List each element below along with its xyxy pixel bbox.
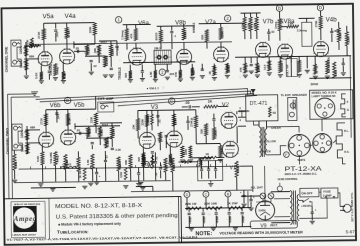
svg-text:100K: 100K	[19, 60, 23, 69]
svg-text:220K: 220K	[88, 127, 92, 134]
svg-text:R.S.: R.S.	[344, 150, 349, 154]
svg-text:560Ω: 560Ω	[236, 166, 240, 174]
svg-text:.02: .02	[104, 155, 108, 159]
svg-text:+40MF: +40MF	[189, 216, 192, 224]
svg-text:68K: 68K	[30, 125, 36, 129]
svg-text:1.5K: 1.5K	[149, 71, 153, 77]
svg-text:+40MF: +40MF	[229, 215, 232, 223]
svg-text:47K: 47K	[129, 33, 133, 38]
svg-text:Ω: Ω	[347, 108, 349, 112]
svg-text:220K: 220K	[140, 119, 144, 126]
svg-text:V4b: V4b	[326, 16, 338, 23]
svg-text:.02: .02	[271, 30, 275, 34]
svg-text:V7b: V7b	[263, 19, 274, 25]
svg-text:33K: 33K	[93, 48, 97, 53]
svg-text:100K: 100K	[19, 46, 23, 55]
svg-text:47K: 47K	[174, 72, 178, 77]
svg-text:1meg: 1meg	[55, 155, 59, 162]
svg-text:.05: .05	[76, 128, 80, 132]
svg-text:220K: 220K	[112, 129, 116, 136]
svg-text:1meg: 1meg	[274, 21, 278, 28]
svg-text:270K: 270K	[189, 120, 193, 127]
svg-text:100K: 100K	[183, 31, 187, 38]
svg-text:+40MF: +40MF	[242, 215, 245, 223]
svg-text:470K: 470K	[240, 23, 244, 30]
svg-text:47K: 47K	[239, 67, 243, 72]
svg-text:Ampeg: Ampeg	[13, 215, 37, 223]
svg-text:C: C	[170, 99, 173, 104]
svg-text:220K: 220K	[220, 31, 224, 38]
svg-text:.0047: .0047	[118, 160, 122, 167]
svg-text:1.5K: 1.5K	[86, 159, 90, 165]
svg-text:DT.-471: DT.-471	[250, 101, 268, 107]
svg-text:V6b: V6b	[50, 103, 61, 109]
svg-text:1K: 1K	[182, 151, 186, 155]
svg-text:VOLUME: VOLUME	[49, 64, 53, 76]
svg-text:GREEN: GREEN	[271, 126, 281, 130]
svg-text:CHANNEL ONE: CHANNEL ONE	[4, 46, 8, 72]
svg-text:VOLUME: VOLUME	[49, 152, 53, 164]
svg-text:40 40 20MF: 40 40 20MF	[198, 158, 211, 161]
svg-text:B: B	[278, 6, 281, 11]
svg-text:.05: .05	[75, 46, 79, 50]
svg-text:272K: 272K	[39, 117, 43, 125]
svg-text:820: 820	[124, 73, 128, 78]
svg-text:NOTE:: NOTE:	[195, 231, 212, 237]
svg-text:100K: 100K	[20, 144, 24, 153]
svg-text:272K: 272K	[67, 29, 71, 37]
svg-text:CHOKE: CHOKE	[63, 163, 72, 166]
svg-text:1K 1W: 1K 1W	[78, 170, 82, 178]
svg-text:250K: 250K	[227, 66, 231, 73]
svg-text:BASS: BASS	[154, 32, 158, 40]
svg-text:470K: 470K	[252, 23, 256, 30]
svg-text:1meg: 1meg	[55, 67, 59, 75]
svg-text:VOLT SW: VOLT SW	[285, 64, 289, 77]
svg-text:.047: .047	[56, 114, 60, 120]
svg-text:82K: 82K	[124, 160, 128, 165]
svg-text:BLACK: BLACK	[261, 149, 271, 153]
svg-text:+: +	[214, 166, 216, 170]
svg-text:R.L.: R.L.	[344, 129, 349, 133]
svg-text:1K: 1K	[208, 71, 212, 75]
svg-text:470K: 470K	[14, 161, 18, 168]
svg-text:B.+YELLOW: B.+YELLOW	[261, 139, 277, 143]
svg-text:.02: .02	[154, 172, 158, 176]
svg-text:MIDDLE: MIDDLE	[192, 22, 196, 33]
svg-text:D: D	[186, 193, 189, 197]
svg-text:1K: 1K	[208, 100, 213, 104]
svg-text:.02: .02	[157, 119, 161, 123]
svg-text:820: 820	[137, 157, 141, 162]
svg-text:5.6K: 5.6K	[36, 155, 40, 162]
svg-text:V5a: V5a	[43, 13, 55, 20]
svg-text:TREBLE: TREBLE	[118, 67, 122, 80]
svg-text:.05: .05	[185, 101, 190, 105]
svg-text:68K: 68K	[29, 54, 35, 58]
svg-text:100K: 100K	[173, 118, 177, 125]
svg-text:5.6K: 5.6K	[288, 21, 295, 25]
svg-text:1.5meg: 1.5meg	[106, 136, 110, 146]
svg-text:220K: 220K	[86, 45, 90, 53]
svg-text:900V A.C. CT. 250MA D.C.: 900V A.C. CT. 250MA D.C.	[285, 172, 318, 176]
svg-text:.047: .047	[55, 31, 59, 37]
svg-text:V4a: V4a	[65, 13, 77, 20]
svg-text:RECT.: RECT.	[270, 223, 278, 227]
svg-text:2.2K: 2.2K	[115, 148, 121, 152]
svg-text:100K: 100K	[119, 171, 123, 177]
svg-text:220K: 220K	[346, 36, 350, 43]
svg-text:CHANNEL TWO: CHANNEL TWO	[6, 128, 10, 155]
svg-text:SPKR: SPKR	[310, 82, 318, 86]
svg-text:● VM-1 ≡: ● VM-1 ≡	[147, 86, 160, 90]
svg-text:+: +	[200, 166, 202, 170]
svg-text:MFRS OF THE FINEST MUS.: MFRS OF THE FINEST MUS.	[14, 204, 41, 206]
svg-text:.02: .02	[154, 156, 158, 160]
svg-text:.02: .02	[146, 162, 150, 166]
svg-text:C: C	[205, 193, 208, 197]
svg-text:+: +	[99, 174, 101, 178]
svg-text:To EXT. SPEAKER: To EXT. SPEAKER	[281, 93, 308, 97]
svg-text:1K 10W: 1K 10W	[227, 201, 238, 205]
svg-text:220K: 220K	[89, 117, 93, 124]
svg-text:.005: .005	[115, 45, 119, 51]
svg-text:WHITE: WHITE	[297, 159, 305, 162]
svg-text:15K: 15K	[172, 164, 176, 169]
svg-text:V5b: V5b	[74, 103, 85, 109]
svg-text:272K: 272K	[67, 117, 71, 125]
svg-text:+45/100+: +45/100+	[301, 204, 313, 208]
svg-text:.0047: .0047	[101, 123, 108, 127]
svg-text:272K: 272K	[37, 31, 41, 39]
svg-text:LOUD: LOUD	[280, 63, 284, 71]
svg-text:MODEL NO. 8-12-XT, 8-18-X: MODEL NO. 8-12-XT, 8-18-X	[55, 203, 142, 210]
svg-text:220K: 220K	[111, 48, 115, 55]
svg-text:100K: 100K	[214, 130, 218, 137]
svg-text:V2: V2	[222, 102, 230, 108]
svg-text:LAMP? THOMAS SP.: LAMP? THOMAS SP.	[312, 95, 336, 98]
svg-text:820: 820	[192, 70, 196, 75]
svg-text:220K: 220K	[88, 26, 92, 33]
svg-text:1.8K: 1.8K	[257, 66, 261, 72]
svg-text:250K: 250K	[220, 148, 224, 155]
svg-text:.1: .1	[174, 34, 177, 38]
svg-text:D: D	[319, 5, 322, 10]
svg-text:.02: .02	[93, 64, 97, 68]
svg-text:5.6K: 5.6K	[34, 72, 38, 79]
svg-text:100K: 100K	[20, 130, 24, 139]
svg-text:+40MF: +40MF	[203, 215, 206, 223]
svg-text:100K: 100K	[334, 70, 338, 76]
svg-text:HUM CONTROL: HUM CONTROL	[278, 177, 299, 181]
svg-text:+: +	[315, 208, 317, 212]
svg-text:33K: 33K	[100, 130, 104, 135]
svg-text:10K: 10K	[132, 124, 136, 129]
svg-text:14.4: 14.4	[263, 64, 267, 70]
svg-text:82K: 82K	[200, 129, 204, 134]
svg-text:LINDEN, NEW JERSEY: LINDEN, NEW JERSEY	[12, 234, 37, 236]
svg-text:100K: 100K	[338, 32, 342, 39]
svg-text:3.3K: 3.3K	[63, 73, 67, 79]
svg-text:1.5meg: 1.5meg	[105, 55, 109, 65]
svg-text:82K: 82K	[200, 35, 204, 40]
svg-text:+40MF: +40MF	[216, 215, 219, 223]
svg-text:+: +	[207, 166, 209, 170]
svg-text:S-67: S-67	[345, 229, 355, 234]
svg-text:100K: 100K	[246, 23, 250, 30]
svg-text:2 AMP: 2 AMP	[323, 193, 332, 197]
svg-text:+: +	[240, 190, 242, 194]
svg-text:■ Module VM-1 factory replac: ■ Module VM-1 factory replacement only	[58, 222, 121, 227]
svg-text:EXTENSION: EXTENSION	[327, 57, 331, 72]
svg-text:1meg: 1meg	[146, 115, 150, 122]
svg-text:1.5meg: 1.5meg	[120, 30, 124, 40]
